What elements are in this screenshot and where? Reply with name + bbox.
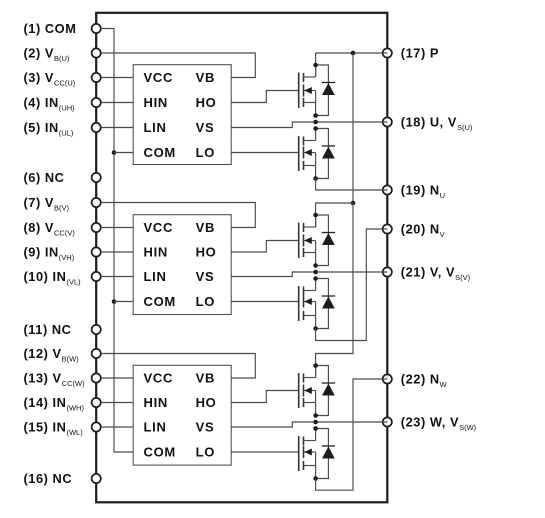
pin (22) N_W <box>383 371 448 388</box>
svg-text:(13) VCC(W): (13) VCC(W) <box>24 370 86 387</box>
diode D2 (body diode) <box>316 129 336 179</box>
svg-text:(5) IN(UL): (5) IN(UL) <box>24 120 74 137</box>
svg-text:(3) VCC(U): (3) VCC(U) <box>24 70 76 87</box>
svg-text:(6) NC: (6) NC <box>24 170 65 185</box>
svg-text:HO: HO <box>196 244 217 259</box>
op-amp U1 (U-phase gate driver) <box>133 65 231 165</box>
wire input pin to U1 <box>101 127 133 129</box>
svg-text:VCC: VCC <box>144 220 174 235</box>
svg-text:(8) VCC(V): (8) VCC(V) <box>24 220 76 237</box>
svg-text:(14) IN(WH): (14) IN(WH) <box>24 395 85 412</box>
pin (11) NC <box>24 322 101 337</box>
svg-text:HIN: HIN <box>144 395 169 410</box>
wire COM bus to U1 COM pin <box>114 152 133 154</box>
diode D6 (body diode) <box>316 429 336 479</box>
junction Q5 source node <box>313 413 318 418</box>
junction Q6 drain node <box>313 426 318 431</box>
pin (6) NC <box>24 170 101 185</box>
wire node W source to pin 22 N_W <box>316 379 388 490</box>
transistor Q1 (U high-side MOSFET) <box>299 65 316 116</box>
pin (18) U, V_S(U) <box>383 114 473 131</box>
wire node V source to pin 20 N_V <box>316 229 388 341</box>
pin (4) IN_(UH) <box>24 95 101 112</box>
wire input pin to U2 <box>101 251 133 253</box>
svg-text:(10) IN(VL): (10) IN(VL) <box>24 269 82 286</box>
pin (5) IN_(UL) <box>24 120 101 137</box>
junction Q4 drain node <box>313 276 318 281</box>
svg-text:(23) W, VS(W): (23) W, VS(W) <box>401 414 477 431</box>
wire input pin to U1 <box>101 102 133 104</box>
pin (7) V_B(V) <box>24 195 101 212</box>
junction Q4 source node <box>313 326 318 331</box>
junction P rail tap V-phase <box>351 201 356 206</box>
pin (2) V_B(U) <box>24 45 101 62</box>
wire HO1 to high-side gate <box>231 91 299 103</box>
wire VS3 to phase node <box>231 422 315 427</box>
junction node W <box>313 420 318 425</box>
junction Q1 drain node <box>313 63 318 68</box>
wire V phase node to pin 21 <box>316 271 388 273</box>
wire HO2 to high-side gate <box>231 241 299 253</box>
svg-text:HIN: HIN <box>144 244 169 259</box>
wire P pin 17 rail <box>316 52 388 54</box>
wire input pin to U3 <box>101 426 133 428</box>
wire LO3 to low-side gate <box>231 451 299 453</box>
svg-text:LIN: LIN <box>144 419 167 434</box>
wire P rail vertical <box>352 53 354 203</box>
svg-text:LIN: LIN <box>144 120 167 135</box>
junction Q2 source node <box>313 176 318 181</box>
junction node U <box>313 120 318 125</box>
wire input pin to U2 <box>101 276 133 278</box>
pin (1) COM <box>24 21 101 36</box>
pin (10) IN_(VL) <box>24 269 101 286</box>
svg-text:HO: HO <box>196 95 217 110</box>
transistor Q3 (V high-side MOSFET) <box>299 215 316 266</box>
transistor Q4 (V low-side MOSFET) <box>299 279 316 329</box>
svg-text:HIN: HIN <box>144 95 169 110</box>
junction P rail tap <box>351 51 356 56</box>
junction COM bus / driver U2 COM <box>112 299 117 304</box>
svg-text:COM: COM <box>144 294 176 309</box>
pin (14) IN_(WH) <box>24 395 101 412</box>
pin (17) P <box>383 45 439 60</box>
op-amp U2 (V-phase gate driver) <box>133 215 231 315</box>
svg-text:(20) NV: (20) NV <box>401 221 445 238</box>
wire V_B(V) pin to VB <box>101 203 255 228</box>
svg-text:VB: VB <box>196 220 215 235</box>
svg-text:(21) V, VS(V): (21) V, VS(V) <box>401 264 471 281</box>
wire node U to pin 19 N_U <box>316 179 388 191</box>
junction Q2 drain node <box>313 126 318 131</box>
svg-text:(1) COM: (1) COM <box>24 21 77 36</box>
svg-text:VB: VB <box>196 70 215 85</box>
svg-text:VCC: VCC <box>144 70 174 85</box>
svg-text:LO: LO <box>196 145 215 160</box>
svg-text:(17) P: (17) P <box>401 45 439 60</box>
pin (23) W, V_S(W) <box>383 414 477 431</box>
svg-text:VCC: VCC <box>144 370 174 385</box>
junction COM bus / driver U1 COM <box>112 150 117 155</box>
wire P rail to W-phase drain <box>316 203 353 378</box>
junction Q3 drain node <box>313 213 318 218</box>
pin (19) N_U <box>383 182 445 199</box>
diode D3 (body diode) <box>316 215 336 266</box>
wire input pin to U2 <box>101 227 133 229</box>
junction Q5 drain node <box>313 363 318 368</box>
svg-text:(11) NC: (11) NC <box>24 322 72 337</box>
wire COM bus to U2 COM pin <box>114 301 133 303</box>
transistor Q5 (W high-side MOSFET) <box>299 366 316 416</box>
wire P tap to V-phase drain <box>316 203 353 227</box>
svg-text:(12) VB(W): (12) VB(W) <box>24 346 80 363</box>
transistor Q6 (W low-side MOSFET) <box>299 429 316 479</box>
pin (9) IN_(VH) <box>24 244 101 261</box>
pin (21) V, V_S(V) <box>383 264 471 281</box>
wire input pin to U3 <box>101 402 133 404</box>
diode D4 (body diode) <box>316 279 336 329</box>
wire input pin to U1 <box>101 77 133 79</box>
wire VS1 to phase node <box>231 122 315 128</box>
svg-text:(7) VB(V): (7) VB(V) <box>24 195 70 212</box>
pin (13) V_CC(W) <box>24 370 101 387</box>
transistor Q2 (U low-side MOSFET) <box>299 129 316 179</box>
pin (20) N_V <box>383 221 445 238</box>
pin (15) IN_(WL) <box>24 419 101 436</box>
svg-text:(15) IN(WL): (15) IN(WL) <box>24 419 84 436</box>
svg-text:(4) IN(UH): (4) IN(UH) <box>24 95 76 112</box>
wire U phase node to pin 18 <box>316 121 388 123</box>
svg-text:(9) IN(VH): (9) IN(VH) <box>24 244 75 261</box>
pin (12) V_B(W) <box>24 346 101 363</box>
svg-text:(2) VB(U): (2) VB(U) <box>24 45 70 62</box>
wire HO3 to high-side gate <box>231 391 299 403</box>
wire V_B(U) pin to VB <box>101 53 255 78</box>
svg-text:(19) NU: (19) NU <box>401 182 445 199</box>
pin (3) V_CC(U) <box>24 70 101 87</box>
wire LO1 to low-side gate <box>231 152 299 154</box>
svg-text:COM: COM <box>144 444 176 459</box>
junction Q6 source node <box>313 476 318 481</box>
pin (16) NC <box>24 471 101 486</box>
junction Q1 source node <box>313 113 318 118</box>
svg-text:VS: VS <box>196 419 215 434</box>
svg-text:HO: HO <box>196 395 217 410</box>
svg-text:(18) U, VS(U): (18) U, VS(U) <box>401 114 473 131</box>
svg-text:COM: COM <box>144 145 176 160</box>
diode D1 (body diode) <box>316 65 336 116</box>
svg-text:LO: LO <box>196 294 215 309</box>
wire V_B(W) pin to VB <box>101 354 255 379</box>
wire pin1 COM to COM bus <box>101 29 133 453</box>
svg-text:(22) NW: (22) NW <box>401 371 448 388</box>
diode D5 (body diode) <box>316 366 336 416</box>
svg-text:LIN: LIN <box>144 269 167 284</box>
wire U-phase top drain feed <box>315 53 317 77</box>
svg-text:LO: LO <box>196 444 215 459</box>
wire VS2 to phase node <box>231 272 315 277</box>
svg-text:VB: VB <box>196 370 215 385</box>
junction Q3 source node <box>313 263 318 268</box>
svg-text:VS: VS <box>196 269 215 284</box>
junction node V <box>313 270 318 275</box>
pin (8) V_CC(V) <box>24 220 101 237</box>
op-amp U3 (W-phase gate driver) <box>133 365 231 465</box>
wire W phase node to pin 23 <box>316 421 388 423</box>
svg-text:(16) NC: (16) NC <box>24 471 73 486</box>
wire LO2 to low-side gate <box>231 301 299 303</box>
module package outline <box>96 13 387 503</box>
wire input pin to U3 <box>101 377 133 379</box>
svg-text:VS: VS <box>196 120 215 135</box>
